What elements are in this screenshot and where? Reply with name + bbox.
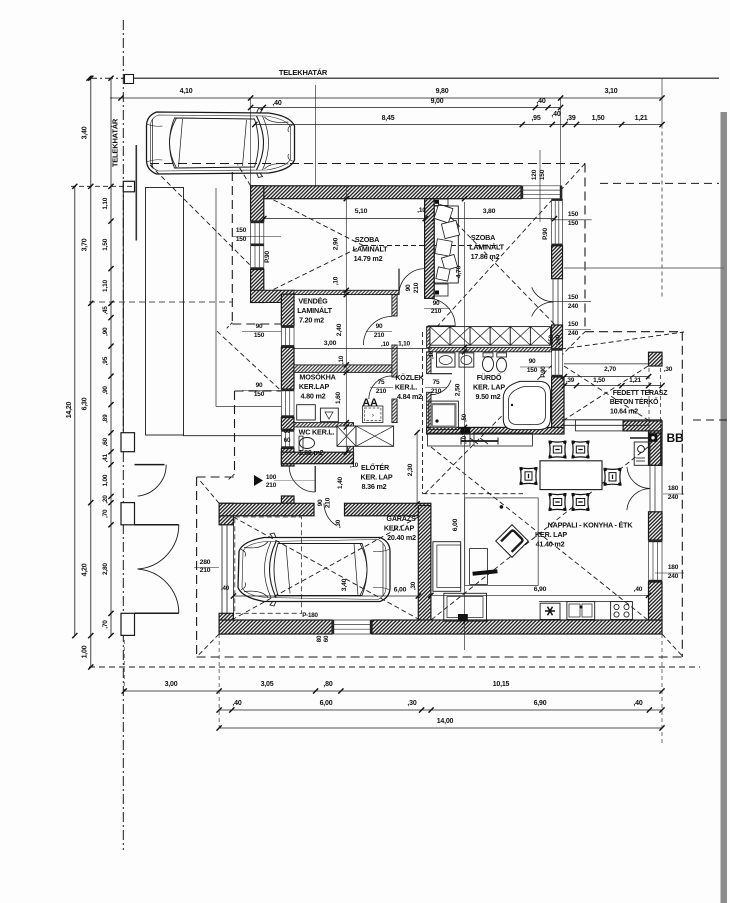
svg-text:,70: ,70: [102, 509, 109, 518]
svg-text:,10: ,10: [350, 462, 359, 469]
svg-text:SZOBA: SZOBA: [355, 235, 379, 244]
wall vendeg west upper: [281, 294, 294, 326]
roof hip diagonals over szoba1: [150, 165, 251, 266]
svg-text:150: 150: [236, 227, 247, 234]
window wc west 60/60: [281, 430, 294, 449]
svg-text:240: 240: [668, 573, 679, 580]
wall fürdő east upper pier: [552, 325, 563, 349]
wall mosoka/wc partition thin: [294, 423, 354, 427]
svg-text:210: 210: [431, 308, 442, 315]
svg-text:NAPPALI - KONYHA - ÉTK: NAPPALI - KONYHA - ÉTK: [548, 521, 634, 530]
wire witness line to garage door jamb: [314, 85, 316, 187]
svg-text:14,20: 14,20: [66, 401, 73, 418]
bathtub corner: [503, 381, 550, 429]
svg-text:1,10: 1,10: [102, 279, 109, 291]
1,10 + ,10 corridor dims: [294, 348, 430, 350]
svg-text:3,10: 3,10: [605, 88, 618, 95]
svg-text:,45: ,45: [102, 306, 109, 315]
svg-text:150: 150: [568, 220, 579, 227]
svg-text:120: 120: [531, 169, 538, 180]
svg-text:90: 90: [529, 358, 536, 365]
svg-text:5,10: 5,10: [355, 208, 368, 215]
svg-text:210: 210: [431, 388, 442, 395]
dimension row 2: 9,00 / ,40: [251, 107, 561, 109]
wire TELEKHATAR west boundary dash-dot line: [122, 20, 124, 850]
bottom dim row B: ,40 6,00 ,30 6,90 ,40: [219, 709, 662, 711]
bathroom sinks: [437, 353, 456, 367]
svg-text:150: 150: [548, 334, 555, 344]
svg-text:,89: ,89: [102, 414, 109, 423]
section BB mark: [649, 434, 658, 442]
bottom dim row A: 3,00 3,05 ,80 10,15: [124, 690, 662, 692]
svg-text:,41: ,41: [102, 453, 109, 462]
pillar terrace corner: [649, 352, 663, 366]
wall mosoka west upper: [281, 347, 294, 389]
svg-text:FÜRDŐ: FÜRDŐ: [477, 373, 502, 382]
svg-text:80: 80: [316, 635, 323, 642]
wall fürdő west upper: [427, 352, 431, 374]
dining table + chairs: [540, 461, 602, 490]
svg-text:240: 240: [668, 494, 679, 501]
roof valley dashes court + terrace: [422, 332, 424, 494]
svg-text:100: 100: [266, 474, 277, 481]
attic access dashed box: [363, 406, 383, 423]
shower: [429, 401, 459, 430]
svg-text:LAMINÁLT: LAMINÁLT: [297, 306, 332, 315]
wall wc east: [348, 436, 354, 452]
wall nappali west / garage east: [418, 506, 431, 623]
wire roof outline terrace top: [585, 331, 682, 333]
6,00 ,30 garage interior dim: [233, 595, 418, 597]
svg-text:,40: ,40: [272, 100, 281, 107]
kitchen counter appliances: [539, 601, 632, 603]
3,40 top segment ticks: [108, 76, 113, 81]
svg-text:2,50: 2,50: [455, 383, 462, 396]
svg-text:90: 90: [405, 284, 412, 291]
svg-text:,70: ,70: [102, 620, 109, 629]
fence pillar ,70: [121, 503, 135, 525]
garage door swing clearance dashed rect: [235, 517, 302, 613]
svg-text:150: 150: [236, 236, 247, 243]
wire fence line upper: [122, 192, 124, 437]
car in garage (top view): [238, 533, 390, 606]
left dim chain outer 14,20: [74, 186, 76, 635]
svg-text:6,30: 6,30: [82, 397, 89, 410]
left chain middle: 3,40 3,70 6,30 4,20 1,00: [90, 78, 92, 667]
svg-text:1,21: 1,21: [635, 115, 648, 122]
svg-text:,10: ,10: [429, 350, 435, 359]
wire neighbour dash short right: [693, 419, 730, 421]
svg-text:TELEKHATÁR: TELEKHATÁR: [111, 118, 120, 167]
window fürdő east P.90: [552, 349, 563, 378]
svg-text:3,80: 3,80: [483, 208, 496, 215]
svg-text:ELŐTÉR: ELŐTÉR: [361, 463, 390, 472]
nightstand szoba2 bottom: [434, 284, 448, 296]
svg-text:›: ›: [372, 413, 374, 419]
wire canopy outline over walkway: [231, 172, 233, 323]
wall east lower: [649, 582, 663, 620]
svg-text:9,00: 9,00: [431, 98, 444, 105]
wire neighbour solid line right: [564, 267, 724, 269]
door fürdő arc 75/210: [431, 380, 451, 395]
svg-text:,10: ,10: [333, 276, 340, 285]
X over terrace: [564, 366, 648, 420]
wall east pier: [649, 512, 663, 540]
wire neighbour dashed line right: [600, 182, 719, 184]
svg-text:4.80 m2: 4.80 m2: [301, 392, 326, 401]
svg-text:3,00: 3,00: [324, 340, 337, 347]
svg-text:1,50: 1,50: [592, 115, 605, 122]
svg-text:,30: ,30: [664, 366, 673, 373]
kitchen hob: [611, 602, 633, 620]
wall east: pieces with openings: [649, 421, 663, 465]
svg-text:KER.LAP: KER.LAP: [299, 382, 330, 391]
svg-text:2,40: 2,40: [336, 323, 343, 336]
svg-text:,39: ,39: [566, 377, 575, 384]
svg-text:240: 240: [568, 330, 579, 337]
wire ridge line bedrooms: [363, 245, 500, 247]
svg-text:240: 240: [555, 334, 562, 344]
left chain inner small segments: [110, 186, 112, 635]
interior dim chain west x=346.3 (2,90 / 2,40 / 1,60): [345, 186, 347, 455]
svg-text:3,40: 3,40: [82, 126, 89, 139]
svg-text:,40: ,40: [633, 700, 642, 707]
washer + dryer mosoka: [297, 405, 316, 420]
kitchen sink: [567, 602, 595, 620]
nightstand szoba2 top: [434, 199, 448, 206]
svg-text:17.86 m2: 17.86 m2: [471, 252, 500, 261]
window garage south P.180: [332, 620, 372, 634]
vehicle gate leaves + arcs (2,80): [135, 524, 179, 526]
door elöter-garage arc 90/210: [324, 503, 336, 525]
wall fürdő north thin: [429, 347, 552, 351]
svg-text:60: 60: [284, 437, 291, 444]
svg-text:7.20 m2: 7.20 m2: [299, 316, 324, 325]
wire paving edge corner to wall: [216, 406, 281, 408]
pillar BB east: [650, 433, 661, 465]
wall szoba1 west upper: [251, 186, 264, 221]
svg-text:2,80: 2,80: [102, 563, 109, 575]
bed szoba2: [434, 206, 458, 283]
svg-text:180: 180: [668, 485, 679, 492]
wall wc west lower: [281, 449, 294, 467]
wire terrace south edge lower: [562, 424, 649, 426]
svg-text:,60: ,60: [102, 437, 109, 446]
svg-text:WC KER.L.: WC KER.L.: [299, 428, 335, 437]
svg-text:,40: ,40: [232, 700, 241, 707]
wire roof outline garage left: [196, 477, 198, 657]
svg-text:1,40: 1,40: [337, 476, 344, 488]
wall garage north east-part: [345, 503, 431, 516]
svg-text:3,00: 3,00: [165, 681, 178, 688]
svg-text:150: 150: [568, 321, 579, 328]
svg-text:,50: ,50: [462, 413, 468, 422]
svg-text:,80: ,80: [323, 681, 332, 688]
svg-text:BETON TÉRKŐ: BETON TÉRKŐ: [610, 397, 659, 406]
svg-text:LAMINÁLT: LAMINÁLT: [353, 245, 388, 254]
svg-text:SZOBA: SZOBA: [471, 233, 495, 242]
svg-text:P.90: P.90: [540, 366, 547, 378]
svg-text:210: 210: [266, 482, 277, 489]
wire walkway edge to entrance: [183, 435, 281, 437]
wire roof outline bottom: [197, 656, 683, 658]
window vendeg west 90/150: [281, 326, 294, 348]
svg-text:,20: ,20: [102, 495, 109, 504]
wire paving edge line right of walkway: [215, 188, 217, 407]
svg-text:,40: ,40: [551, 111, 560, 118]
svg-text:4,10: 4,10: [180, 88, 193, 95]
door szoba2 arc 90/210: [428, 298, 456, 326]
section line AA vertical / interior dim chain east: [464, 202, 466, 650]
bidet fürdo: [497, 358, 507, 372]
window nappali east 180/240: [649, 540, 663, 582]
toilet fürdo: [483, 357, 494, 372]
wall wc west pier: [281, 418, 294, 430]
walkway rectangle from street: [146, 188, 184, 436]
witness lines bottom: [123, 640, 125, 691]
svg-text:4,20: 4,20: [82, 563, 89, 576]
wire hip szoba2 X: [434, 200, 560, 330]
wire TELEKHATAR north boundary solid line: [123, 77, 719, 79]
svg-text:10.64 m2: 10.64 m2: [610, 409, 638, 416]
svg-text:240: 240: [568, 303, 579, 310]
svg-text:,95: ,95: [531, 115, 540, 122]
hall cabinets along nappali north: [428, 433, 470, 446]
wall szoba2 east pier: [552, 246, 563, 279]
door terrace double 180/240: [649, 465, 651, 512]
door vendeg arc 90/210: [363, 317, 392, 346]
svg-text:KER.LAP: KER.LAP: [384, 524, 415, 533]
svg-text:,40: ,40: [221, 585, 230, 592]
svg-text:6,00: 6,00: [452, 518, 459, 531]
svg-text:280: 280: [200, 559, 211, 566]
fireplace D-shape: [496, 525, 529, 558]
svg-text:150: 150: [527, 367, 538, 374]
svg-text:P-180: P-180: [302, 612, 318, 619]
tall kitchen cabinet with ovens: [634, 442, 648, 465]
witness verticals for top dims: [250, 98, 252, 187]
dim 5,10 + ,10 + 3,80: [264, 218, 425, 220]
svg-text:6,90: 6,90: [534, 700, 547, 707]
svg-text:KER. LAP: KER. LAP: [473, 383, 505, 392]
svg-text:GARÁZS: GARÁZS: [386, 514, 416, 523]
wall szoba1 west lower: [251, 270, 264, 303]
wall garage north west-part: [219, 503, 314, 516]
svg-text:20.40 m2: 20.40 m2: [387, 533, 416, 542]
fence post square on north boundary: [125, 75, 134, 84]
svg-text:,30: ,30: [335, 519, 342, 528]
svg-text:150: 150: [568, 211, 579, 218]
wire TELEKHATAR north boundary dash-dot (left part): [89, 77, 123, 79]
gardrob crossed boxes row: [430, 327, 450, 346]
pedestrian gate leaf + arc (1,00): [135, 464, 165, 466]
svg-text:75: 75: [378, 379, 385, 386]
svg-text:8,45: 8,45: [382, 115, 395, 122]
svg-text:8.36 m2: 8.36 m2: [362, 482, 387, 491]
svg-text:VENDÉG: VENDÉG: [298, 297, 328, 306]
svg-text:210: 210: [325, 497, 332, 508]
wall vendeg/mosoka partition: [294, 365, 392, 373]
svg-text:,90: ,90: [102, 386, 109, 395]
svg-text:3,05: 3,05: [261, 681, 274, 688]
svg-text:,95: ,95: [102, 356, 109, 365]
carpet nappali: [465, 498, 539, 586]
wire roof outline terrace right: [681, 332, 683, 657]
roof corner diagonals: [662, 634, 682, 656]
svg-text:1,50: 1,50: [593, 377, 605, 384]
svg-text:90: 90: [433, 300, 440, 307]
svg-text:FEDETT TERASZ: FEDETT TERASZ: [613, 390, 668, 397]
svg-text:210: 210: [374, 332, 385, 339]
svg-text:2,30: 2,30: [407, 463, 414, 476]
svg-text:KER. LAP: KER. LAP: [361, 473, 393, 482]
wall garage west upper: [219, 503, 233, 525]
svg-text:90: 90: [256, 323, 263, 330]
svg-text:60: 60: [284, 428, 291, 435]
svg-text:1,60: 1,60: [335, 391, 342, 403]
svg-text:75: 75: [433, 379, 440, 386]
svg-text:210: 210: [376, 388, 387, 395]
wall fürdő south / nappali north: [427, 427, 564, 434]
section AA flag black: [460, 427, 470, 434]
svg-text:1.80 m2: 1.80 m2: [299, 448, 324, 457]
door mosoka arc 75/210: [369, 376, 392, 399]
wall fürdő west lower: [427, 392, 431, 427]
svg-text:1,00: 1,00: [102, 474, 109, 486]
wall south east-part: [372, 620, 662, 634]
wire hip szoba2 from roof corner: [434, 164, 585, 331]
big X over nappali: [431, 447, 648, 620]
svg-text:210: 210: [413, 282, 420, 293]
wall pier west corner: [251, 290, 294, 325]
100/210 front door label: [254, 475, 263, 486]
door szoba2 exterior 150/240 sill: [552, 279, 554, 325]
wall gardrob west end: [427, 327, 430, 348]
chimney flue box 2: [356, 426, 394, 446]
svg-text:,10: ,10: [462, 435, 468, 444]
wire roof outline right over bedrooms: [584, 164, 586, 332]
svg-text:LAMINÁLT: LAMINÁLT: [469, 243, 504, 252]
wall divider szoba1/szoba2: [425, 199, 435, 299]
svg-text:1,10: 1,10: [102, 197, 109, 209]
garage door 280/210 in west wall: [221, 525, 223, 614]
svg-text:KER. LAP: KER. LAP: [535, 530, 567, 539]
beam symbol: [461, 440, 498, 442]
svg-text:14,00: 14,00: [437, 718, 454, 725]
wall terrace-north piece: [623, 421, 662, 431]
svg-text:MOSÓKHA: MOSÓKHA: [299, 373, 335, 382]
wall bedroom-block north: [251, 186, 521, 199]
X over garage: [233, 517, 418, 619]
fence pillar 60 wide: [121, 433, 135, 452]
svg-text:,10: ,10: [381, 341, 390, 348]
window szoba1 west P.90 150/150: [251, 221, 264, 270]
door szoba1 arc 90/210: [399, 269, 425, 295]
svg-text:6,00: 6,00: [394, 587, 407, 594]
wire roof outline west jog 1: [232, 323, 281, 325]
terrace dims 2,70 / ,39 1,50 1,21 ,30: [564, 376, 648, 378]
svg-text:1,00: 1,00: [82, 645, 89, 658]
wire lot cross dashed line upper-left: [89, 301, 232, 303]
svg-text:9,80: 9,80: [436, 88, 449, 95]
svg-text:1,50: 1,50: [102, 238, 109, 250]
svg-text:3,70: 3,70: [82, 238, 89, 251]
coffee table: [470, 549, 488, 585]
wall wc south: [281, 452, 353, 464]
wire roof outline west jog 2: [235, 390, 282, 392]
svg-text:6,00: 6,00: [320, 700, 333, 707]
svg-text:3,40: 3,40: [341, 578, 348, 591]
svg-text:60: 60: [323, 635, 330, 642]
wall fürdő/terrace east: [552, 377, 564, 430]
svg-text:,40: ,40: [634, 586, 643, 593]
svg-text:180: 180: [668, 564, 679, 571]
svg-text:10,15: 10,15: [493, 681, 510, 688]
svg-text:,39: ,39: [566, 115, 575, 122]
witness dashes terrace pillar: [648, 368, 650, 433]
svg-text:2,90: 2,90: [333, 237, 340, 250]
svg-text:14.79 m2: 14.79 m2: [354, 254, 383, 263]
fence post at y182: [123, 181, 134, 192]
svg-text:6,90: 6,90: [534, 586, 547, 593]
svg-text:1,21: 1,21: [629, 377, 641, 384]
wall west below front door: [281, 496, 294, 503]
svg-text:2,70: 2,70: [604, 366, 616, 373]
wall partition szoba1/vendeg thin: [294, 290, 399, 294]
6,90 ,40 nappali dims: [431, 594, 649, 596]
wire south setback dashed line: [89, 666, 700, 668]
svg-text:BB: BB: [667, 431, 684, 445]
wall garage west lower corner: [219, 613, 233, 634]
window mosoka west 90/150: [281, 389, 294, 418]
bottom dim row C: 14,00: [219, 727, 662, 729]
tv soundbar black: [473, 571, 498, 574]
svg-text:,10: ,10: [417, 207, 426, 214]
svg-text:150: 150: [254, 391, 265, 398]
window szoba2 corner east 150/150: [552, 199, 563, 246]
wire terrace north edge: [564, 363, 649, 365]
svg-text:90: 90: [317, 499, 324, 506]
wire roof outline garage top-left jog: [197, 476, 235, 478]
sofa L-shape: [433, 542, 461, 592]
wc toilet: [300, 438, 315, 449]
dimension row 1: 4,10 / 9,80 / 3,10: [110, 97, 662, 99]
svg-text:150: 150: [254, 332, 265, 339]
front door opening + arc 100/210: [314, 466, 316, 492]
wire retaining wall segment along drive: [135, 145, 137, 241]
svg-text:P.90: P.90: [264, 251, 271, 263]
svg-text:KÖZLEK: KÖZLEK: [395, 373, 424, 382]
dimension row 3: 8,45 ,95 ,40 ,39 1,50 1,21: [255, 124, 662, 126]
svg-text:90: 90: [376, 323, 383, 330]
svg-text:,30: ,30: [407, 700, 416, 707]
svg-text:1,10: 1,10: [398, 341, 410, 348]
svg-text:,10: ,10: [338, 355, 345, 364]
wall corridor west thin with door openings: [392, 295, 397, 316]
svg-text:4.84 m2: 4.84 m2: [397, 392, 422, 401]
wall south west-part: [219, 620, 332, 634]
window corner glazing north 120/150: [521, 186, 562, 199]
car on street (top view): [147, 109, 295, 178]
svg-text:41.40 m2: 41.40 m2: [536, 540, 565, 549]
wire terrace south edge upper: [562, 419, 662, 421]
svg-text:,30: ,30: [410, 581, 417, 590]
fence pillar ,70 bottom: [121, 613, 135, 635]
svg-text:,90: ,90: [102, 327, 109, 336]
svg-text:AA: AA: [362, 397, 378, 409]
svg-text:TELEKHATÁR: TELEKHATÁR: [279, 68, 328, 77]
terrace step: [576, 420, 624, 431]
